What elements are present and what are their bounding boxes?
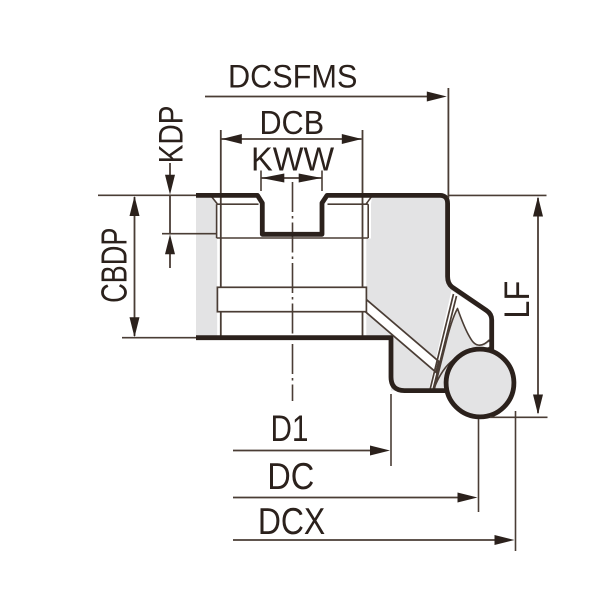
pocket wave (grey gash face) bbox=[434, 309, 491, 391]
KDP lower arrow (up) bbox=[165, 234, 175, 254]
KWW left arrow bbox=[261, 174, 284, 183]
KWW right arrow bbox=[299, 174, 322, 183]
DC arrow bbox=[458, 493, 478, 503]
KDP upper arrow (down) bbox=[165, 175, 175, 195]
label CBDP (rotated) bbox=[101, 229, 127, 302]
label DCX bbox=[261, 508, 325, 535]
centerline (dash-dot) bbox=[292, 182, 294, 401]
CBDP bottom extension line bbox=[122, 337, 196, 339]
DCX dimension line bbox=[233, 539, 501, 541]
label DC bbox=[270, 463, 313, 490]
LF upper arrow (up) bbox=[533, 197, 543, 217]
D1 arrow bbox=[370, 446, 390, 456]
DC dimension line bbox=[233, 497, 464, 499]
insert pocket white region bbox=[428, 291, 490, 392]
KWW extension lines bbox=[261, 171, 322, 192]
top face extension line bbox=[98, 194, 196, 196]
insert seat edge line B bbox=[433, 296, 457, 391]
round insert (circle) bbox=[446, 349, 514, 417]
CBDP lower arrow (down) bbox=[130, 317, 140, 337]
insert seat edge line A bbox=[430, 294, 454, 391]
DCB dimension line bbox=[222, 138, 362, 140]
label DCSFMS bbox=[231, 65, 357, 88]
main body thick outline: top face, keyway, right profile bbox=[196, 195, 492, 353]
body bottom thick outline with step bbox=[196, 338, 447, 391]
DCSFMS arrow bbox=[427, 92, 447, 102]
CBDP dimension (vertical) bbox=[134, 197, 136, 336]
label DCB bbox=[262, 111, 323, 135]
LF lower arrow (down) bbox=[533, 395, 543, 415]
LF top extension line bbox=[449, 194, 547, 196]
label LF (rotated) bbox=[505, 282, 530, 316]
KDP lower extension line bbox=[162, 233, 217, 235]
label KWW bbox=[254, 148, 334, 171]
cutter body left wall (grey section band) bbox=[196, 196, 217, 336]
CBDP upper arrow (up) bbox=[130, 196, 140, 216]
DCX extension line bbox=[515, 411, 517, 551]
screw slot white band (diagonal) bbox=[366, 299, 439, 373]
DCB left arrow bbox=[222, 134, 242, 144]
cutter body right wall (grey section region) bbox=[366, 196, 491, 398]
KWW dimension line bbox=[261, 177, 322, 179]
bore left wall line bbox=[220, 130, 222, 337]
D1 extension line bbox=[390, 394, 392, 466]
DCB right arrow bbox=[342, 134, 362, 144]
label D1 bbox=[273, 416, 307, 442]
bore right wall line bbox=[362, 130, 364, 337]
KDP dimension (vertical, arrows outside) bbox=[169, 163, 171, 268]
ring groove band bbox=[217, 287, 366, 311]
white sliver above insert bbox=[470, 341, 490, 351]
LF bottom extension line bbox=[490, 416, 548, 418]
DCSFMS right extension line bbox=[447, 88, 449, 198]
DC extension line bbox=[478, 419, 480, 512]
D1 dimension line bbox=[233, 450, 376, 452]
LF dimension (vertical) bbox=[537, 198, 539, 413]
DCSFMS dimension line bbox=[205, 96, 432, 98]
DCX arrow bbox=[495, 535, 515, 545]
bore chamfer far edges bbox=[211, 196, 371, 238]
label KDP (rotated) bbox=[159, 107, 183, 161]
